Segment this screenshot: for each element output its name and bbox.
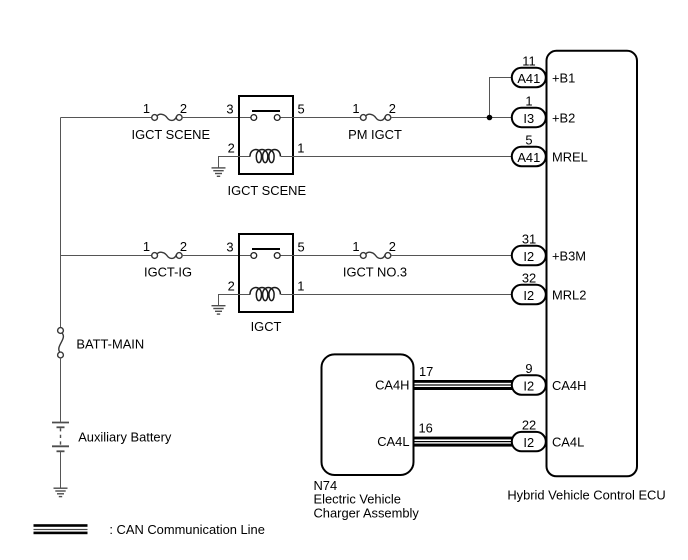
svg-text:PM IGCT: PM IGCT	[348, 127, 402, 142]
svg-text:3: 3	[226, 240, 233, 255]
relay1 IGCT SCENE coil	[250, 150, 280, 163]
svg-text:5: 5	[525, 133, 532, 148]
svg-text:+B2: +B2	[552, 111, 575, 126]
wire relay2 coil pin2 to ground	[219, 295, 241, 307]
battery Auxiliary Battery	[52, 423, 69, 452]
svg-text:5: 5	[298, 240, 305, 255]
relay1 IGCT SCENE contact bar	[252, 110, 280, 112]
wire relay2 IGCT coil internal right	[281, 294, 292, 296]
svg-text:I3: I3	[523, 111, 534, 126]
fuse IGCT-IG	[152, 252, 182, 258]
junction dot node	[487, 115, 493, 121]
relay relay2 IGCT box	[239, 234, 293, 312]
svg-text:17: 17	[419, 364, 433, 379]
svg-text:CA4H: CA4H	[552, 378, 586, 393]
wire MRL2 to relay2 coil pin1	[292, 294, 512, 296]
connector I2 pin 31 (+B3M)	[512, 246, 546, 265]
svg-text:1: 1	[525, 94, 532, 109]
svg-text:11: 11	[522, 54, 535, 69]
svg-text:A41: A41	[517, 150, 540, 165]
svg-text:I2: I2	[523, 378, 534, 393]
relay1 IGCT SCENE contact circles	[251, 115, 280, 121]
wire relay2 pin5 to fuse IGCT NO.3	[292, 255, 361, 257]
N74 box Electric Vehicle Charger Assembly	[322, 354, 414, 475]
relay2 IGCT contact circles	[251, 253, 280, 259]
svg-text:Auxiliary Battery: Auxiliary Battery	[78, 429, 172, 444]
svg-text:2: 2	[180, 101, 187, 116]
svg-text:31: 31	[522, 232, 536, 247]
svg-text:CA4L: CA4L	[377, 434, 409, 449]
svg-text:Charger Assembly: Charger Assembly	[314, 505, 420, 520]
wire fuse IGCT SCENE to relay pin 3	[182, 117, 240, 119]
svg-text:I2: I2	[523, 288, 534, 303]
connector I2 pin 32 (MRL2)	[512, 285, 546, 304]
svg-text:9: 9	[525, 361, 532, 376]
wire left rail BATT-MAIN net	[60, 118, 62, 328]
CAN line CA4H (N74 pin17 to ECU pin9)	[413, 380, 512, 390]
svg-text:IGCT SCENE: IGCT SCENE	[228, 183, 307, 198]
svg-text:: CAN Communication Line: : CAN Communication Line	[109, 522, 264, 537]
relay relay1 IGCT SCENE box	[239, 96, 293, 174]
wire fuse IGCT NO.3 to connector +B3M	[391, 255, 512, 257]
svg-text:MRL2: MRL2	[552, 288, 586, 303]
svg-text:1: 1	[297, 140, 304, 155]
svg-text:I2: I2	[523, 249, 534, 264]
svg-text:5: 5	[298, 102, 305, 117]
legend CAN Communication Line symbol	[34, 524, 88, 534]
relay2 IGCT coil	[250, 288, 280, 301]
wire relay1 IGCT SCENE coil internal left	[240, 156, 250, 158]
svg-text:I2: I2	[523, 435, 534, 450]
wire relay2 IGCT pin3 internal	[240, 255, 251, 257]
svg-text:Hybrid Vehicle Control ECU: Hybrid Vehicle Control ECU	[507, 487, 665, 502]
CAN line CA4L (N74 pin16 to ECU pin22)	[413, 437, 512, 447]
connector A41 pin 5 (MREL)	[512, 147, 546, 166]
svg-text:IGCT: IGCT	[251, 319, 282, 334]
ground of battery	[54, 488, 68, 496]
svg-text:2: 2	[228, 278, 235, 293]
svg-text:+B3M: +B3M	[552, 249, 586, 264]
wire branch node to +B1	[490, 78, 512, 118]
svg-text:CA4H: CA4H	[375, 378, 409, 393]
wire relay1 IGCT SCENE pin5 internal	[280, 117, 292, 119]
svg-text:22: 22	[522, 418, 536, 433]
svg-text:2: 2	[180, 239, 187, 254]
fusible link BATT-MAIN	[58, 328, 64, 358]
connector I2 pin 9 (CA4H)	[512, 375, 546, 394]
svg-text:CA4L: CA4L	[552, 435, 584, 450]
svg-text:16: 16	[419, 420, 433, 435]
svg-text:32: 32	[522, 271, 536, 286]
svg-text:1: 1	[143, 101, 150, 116]
wire relay2 IGCT pin5 internal	[280, 255, 292, 257]
wire row2: left rail to fuse IGCT-IG	[61, 255, 153, 257]
wire relay1 coil pin2 to ground	[219, 157, 241, 169]
wire BATT-MAIN to battery	[60, 358, 62, 422]
svg-text:1: 1	[352, 239, 359, 254]
wire battery to ground	[60, 451, 62, 488]
wire relay2 IGCT coil internal left	[240, 294, 250, 296]
svg-text:1: 1	[297, 278, 304, 293]
wire relay1 IGCT SCENE pin3 internal	[240, 117, 251, 119]
svg-text:IGCT SCENE: IGCT SCENE	[132, 127, 211, 142]
connector A41 pin 11 (+B1)	[512, 68, 546, 87]
svg-text:1: 1	[352, 101, 359, 116]
fuse IGCT SCENE	[152, 114, 182, 120]
svg-text:MREL: MREL	[552, 150, 588, 165]
svg-text:2: 2	[228, 140, 235, 155]
ground of relay2 coil	[212, 306, 226, 314]
svg-text:+B1: +B1	[552, 71, 575, 86]
wire MREL to relay1 coil pin1	[292, 156, 512, 158]
svg-text:A41: A41	[517, 71, 540, 86]
ECU box Hybrid Vehicle Control ECU	[547, 51, 638, 477]
fuse IGCT NO.3	[360, 252, 390, 258]
svg-text:IGCT-IG: IGCT-IG	[144, 265, 192, 280]
wire relay1 IGCT SCENE coil internal right	[281, 156, 292, 158]
ground of relay1 coil	[212, 168, 226, 176]
wire fuse IGCT-IG to relay2 pin 3	[182, 255, 240, 257]
svg-text:2: 2	[389, 101, 396, 116]
wire row1: left rail to fuse IGCT SCENE	[61, 117, 153, 119]
fuse PM IGCT	[360, 114, 390, 120]
battery cells dashed link	[60, 428, 62, 445]
wire fuse PM IGCT to connector +B2	[391, 117, 512, 119]
connector I3 pin 1 (+B2)	[512, 108, 546, 127]
svg-text:3: 3	[226, 102, 233, 117]
svg-text:2: 2	[389, 239, 396, 254]
relay2 IGCT contact bar	[252, 248, 280, 250]
svg-text:IGCT NO.3: IGCT NO.3	[343, 265, 407, 280]
wire relay1 pin5 to fuse PM IGCT	[292, 117, 361, 119]
connector I2 pin 22 (CA4L)	[512, 432, 546, 451]
svg-text:1: 1	[143, 239, 150, 254]
svg-text:BATT-MAIN: BATT-MAIN	[76, 337, 144, 352]
